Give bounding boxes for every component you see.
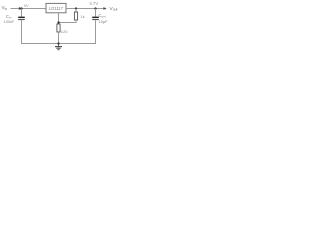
resistor R1 body xyxy=(74,9,77,23)
wire ADJ horizontal xyxy=(59,22,77,24)
junction output node xyxy=(94,7,96,9)
arrowhead input xyxy=(19,7,22,10)
svg-text:1k: 1k xyxy=(81,14,85,19)
svg-text:100nF: 100nF xyxy=(4,20,15,24)
junction R1 top xyxy=(75,7,77,9)
svg-text:Cin: Cin xyxy=(6,14,12,20)
wire input cap top xyxy=(21,9,23,17)
wire regulator output xyxy=(66,8,104,10)
svg-text:LD1117: LD1117 xyxy=(49,6,63,11)
svg-text:3.7V: 3.7V xyxy=(90,1,99,6)
wire output cap top xyxy=(95,9,97,17)
ground xyxy=(55,44,62,50)
wire output cap bottom xyxy=(95,20,97,44)
wire input cap bottom xyxy=(21,20,23,44)
junction ground node xyxy=(57,42,59,44)
wire ADJ pin xyxy=(58,13,60,24)
resistor R2 body xyxy=(57,24,60,44)
capacitor Cin xyxy=(18,17,25,21)
arrowhead output xyxy=(103,7,106,10)
svg-text:Cout: Cout xyxy=(99,13,106,19)
svg-text:10µF: 10µF xyxy=(99,19,109,24)
capacitor Cout xyxy=(92,17,99,21)
svg-text:120: 120 xyxy=(61,29,68,34)
wire ground rail xyxy=(21,43,96,45)
junction ADJ node xyxy=(57,21,59,23)
wire Vin to regulator input xyxy=(11,8,47,10)
svg-text:5V: 5V xyxy=(24,3,29,8)
junction input node xyxy=(20,7,22,9)
regulator U1 LD1117 box xyxy=(46,3,66,12)
